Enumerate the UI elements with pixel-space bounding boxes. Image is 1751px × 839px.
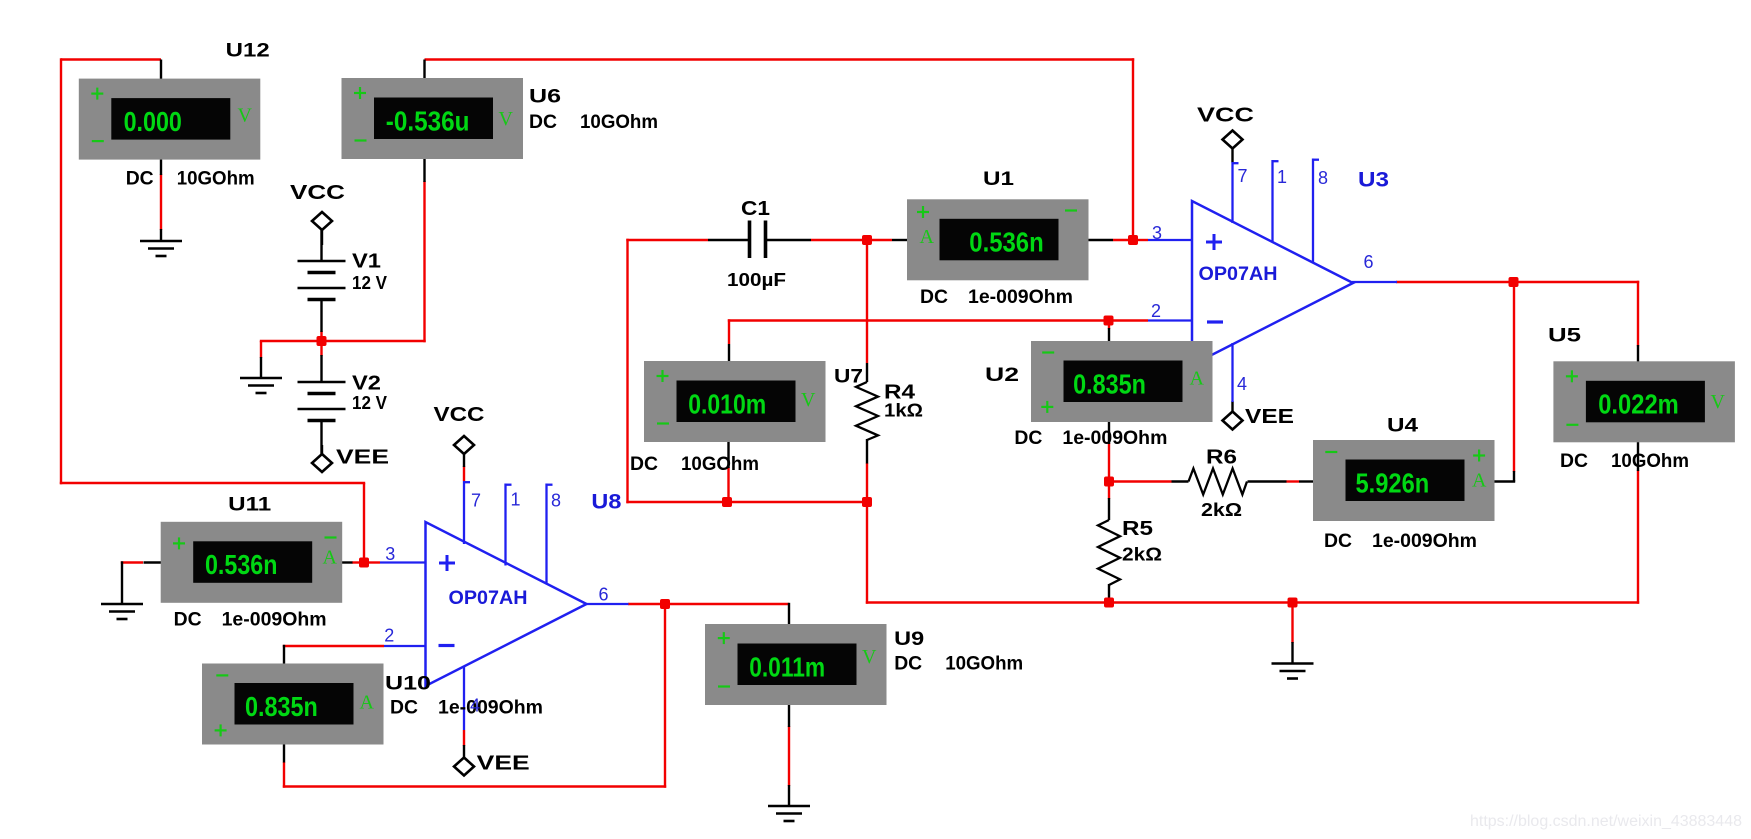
svg-text:8: 8 xyxy=(1318,168,1328,188)
op-amp U8 OP07AH xyxy=(426,522,587,686)
wire VCC diamond stub U3 xyxy=(1231,148,1233,163)
power symbol VEE U3 xyxy=(1223,412,1243,430)
wire battery junction to ground xyxy=(260,341,262,358)
svg-text:10GOhm: 10GOhm xyxy=(580,111,658,133)
wire pin 8 blue U3 xyxy=(1313,159,1319,263)
wire pin 1 blue U8 xyxy=(506,484,512,566)
wire VEE stub red lower opamp xyxy=(463,730,465,746)
svg-text:DC: DC xyxy=(920,286,948,308)
wire pin 6 blue U3 xyxy=(1352,281,1397,283)
wire R6 right lead xyxy=(1248,480,1287,482)
svg-text:-0.536u: -0.536u xyxy=(386,105,470,136)
label U7 DC rating xyxy=(630,453,759,475)
svg-text:VCC: VCC xyxy=(290,182,345,204)
svg-text:10GOhm: 10GOhm xyxy=(1611,450,1689,472)
svg-text:7: 7 xyxy=(471,491,481,511)
svg-text:DC: DC xyxy=(1324,530,1352,552)
svg-text:1e-009Ohm: 1e-009Ohm xyxy=(222,608,327,630)
svg-text:1e-009Ohm: 1e-009Ohm xyxy=(1062,427,1167,449)
wire pin 4 blue U3 xyxy=(1231,343,1233,402)
wire U12 bottom to ground xyxy=(160,174,162,230)
wire U11 left lead black xyxy=(144,561,162,563)
svg-text:0.022m: 0.022m xyxy=(1598,389,1679,420)
wire pin 2 blue U3 xyxy=(1148,319,1193,321)
wire VEE diamond stub U3 xyxy=(1231,401,1233,413)
svg-text:VCC: VCC xyxy=(1197,105,1254,127)
junction battery mid node xyxy=(317,336,327,346)
junction U11 pin3 node xyxy=(359,558,369,568)
multimeter U5 xyxy=(1553,361,1735,442)
svg-text:U12: U12 xyxy=(226,41,270,62)
capacitor C1 100uF xyxy=(750,221,766,259)
wire R4 bottom stub xyxy=(866,439,868,464)
multimeter U12 xyxy=(79,79,260,160)
wire R5 bottom stub xyxy=(1108,584,1110,603)
wire U6 top long wire xyxy=(425,58,1135,241)
svg-text:0.835n: 0.835n xyxy=(1073,368,1146,399)
wire pin6 junction down to U4 right xyxy=(1513,282,1515,472)
label U2 DC rating xyxy=(1014,427,1167,449)
svg-text:OP07AH: OP07AH xyxy=(1199,264,1278,285)
svg-text:OP07AH: OP07AH xyxy=(449,588,528,609)
svg-text:2kΩ: 2kΩ xyxy=(1122,544,1162,565)
svg-text:V: V xyxy=(1711,391,1726,413)
label U12 DC rating xyxy=(126,167,255,189)
wire U9 top stub xyxy=(788,603,790,625)
svg-text:U9: U9 xyxy=(894,629,924,650)
wire U5 top stub xyxy=(1637,345,1639,362)
wire ground rail bottom xyxy=(866,601,1639,603)
svg-text:10GOhm: 10GOhm xyxy=(177,167,255,189)
wire R6 right red xyxy=(1287,480,1300,482)
wire VEE diamond stub battery xyxy=(321,445,323,455)
junction U2-R5-R6 node xyxy=(1104,477,1114,487)
wire pin 1 blue U3 xyxy=(1273,160,1279,242)
wire C1 left wire down to ground rail xyxy=(626,239,867,503)
junction pin6 U8 node xyxy=(660,599,670,609)
svg-text:V: V xyxy=(238,105,253,127)
multimeter U4 xyxy=(1313,440,1495,521)
svg-text:VEE: VEE xyxy=(336,447,389,469)
svg-text:0.536n: 0.536n xyxy=(969,227,1043,258)
svg-text:5.926n: 5.926n xyxy=(1356,467,1430,498)
multimeter U6 xyxy=(342,78,524,159)
label U5 DC rating xyxy=(1560,450,1689,472)
multimeter U10 xyxy=(202,664,384,745)
wire pin 2 wire of U3 xyxy=(728,319,1148,344)
svg-text:A: A xyxy=(1472,470,1487,492)
svg-text:https://blog.csdn.net/weixin_4: https://blog.csdn.net/weixin_43883448 xyxy=(1470,813,1742,830)
label U6 DC rating xyxy=(529,111,658,133)
wire U12 top stub xyxy=(160,60,162,80)
wire VCC stub red lower opamp xyxy=(463,466,465,481)
svg-text:R5: R5 xyxy=(1122,518,1153,540)
label U10 DC rating xyxy=(390,696,543,718)
wire junction to pin 3 of U3 xyxy=(1133,239,1148,241)
ground battery xyxy=(240,378,282,393)
wire battery ground stub xyxy=(260,357,262,378)
wire U10 top stub xyxy=(283,645,285,665)
svg-text:0.010m: 0.010m xyxy=(688,388,766,419)
ground below U9 xyxy=(768,806,810,821)
svg-text:0.835n: 0.835n xyxy=(245,691,318,722)
svg-text:DC: DC xyxy=(529,111,557,133)
wire pin 2 blue U8 xyxy=(384,645,427,647)
label U4 DC rating xyxy=(1324,530,1477,552)
svg-text:V1: V1 xyxy=(352,251,381,273)
wire V1 to V2 junction stub xyxy=(320,331,322,356)
svg-text:1: 1 xyxy=(1277,167,1287,187)
junction C1-U1-R4 node xyxy=(862,235,872,245)
wire U9 ground stub xyxy=(788,785,790,806)
wire pin 7 blue U8 xyxy=(464,481,470,544)
svg-text:V: V xyxy=(801,389,816,411)
wire U11 right lead black xyxy=(341,561,353,563)
wire pin 2 wire of U8 xyxy=(283,645,384,647)
svg-text:1: 1 xyxy=(511,490,521,510)
svg-text:DC: DC xyxy=(894,653,922,675)
wire pin 6 red of U8 xyxy=(628,603,665,605)
wire U5 bottom stub xyxy=(1637,442,1639,471)
label U1 DC rating xyxy=(920,286,1073,308)
svg-text:DC: DC xyxy=(174,608,202,630)
wire pin 6 wire of U3 to U5 xyxy=(1396,281,1639,346)
svg-text:VEE: VEE xyxy=(477,753,530,775)
svg-text:A: A xyxy=(360,692,375,714)
wire right ground stub xyxy=(1291,642,1293,664)
svg-text:1e-009Ohm: 1e-009Ohm xyxy=(968,286,1073,308)
junction pin2 U3 - U2 node xyxy=(1104,316,1114,326)
svg-text:DC: DC xyxy=(630,453,658,475)
wire U4 right lead xyxy=(1492,471,1515,482)
svg-text:U11: U11 xyxy=(228,495,272,516)
wire U11 left corner down xyxy=(121,561,123,604)
svg-text:U5: U5 xyxy=(1548,326,1582,347)
svg-text:1kΩ: 1kΩ xyxy=(884,400,923,421)
svg-text:10GOhm: 10GOhm xyxy=(681,453,759,475)
wire U4 left lead xyxy=(1299,480,1314,482)
multimeter U9 xyxy=(705,624,887,705)
svg-text:10GOhm: 10GOhm xyxy=(945,653,1023,675)
svg-text:1e-009Ohm: 1e-009Ohm xyxy=(438,696,543,718)
battery V1 12V xyxy=(298,261,346,300)
svg-text:0.536n: 0.536n xyxy=(205,549,277,580)
svg-text:DC: DC xyxy=(126,167,154,189)
wire VEE diamond stub lower opamp xyxy=(463,745,465,758)
op-amp U3 OP07AH xyxy=(1192,201,1353,365)
junction R5 rail node xyxy=(1104,598,1114,608)
wire U12 ground stub xyxy=(160,229,162,241)
resistor R6 2k xyxy=(1189,469,1248,495)
junction R4 rail node xyxy=(862,497,872,507)
ground right rail xyxy=(1272,664,1314,679)
wire U2 top stub xyxy=(1108,328,1110,342)
svg-text:3: 3 xyxy=(1152,223,1162,243)
battery V2 12V xyxy=(298,382,346,421)
multimeter U1 xyxy=(907,199,1089,280)
wire U7 bottom stub xyxy=(727,442,729,469)
wire rail down segment xyxy=(866,502,868,604)
wire U2 bottom to R5 R6 junction xyxy=(1108,443,1110,499)
label U11 DC rating xyxy=(174,608,327,630)
wire U2 top red stub xyxy=(1108,321,1110,330)
wire U6 top stub xyxy=(423,60,425,80)
junction pin3 U3 node xyxy=(1128,235,1138,245)
wire junction to R6 left xyxy=(1109,480,1172,482)
power symbol VCC battery xyxy=(312,212,332,230)
wire V1 bottom lead xyxy=(320,300,322,333)
ground below U12 xyxy=(140,241,182,256)
svg-text:C1: C1 xyxy=(741,198,770,220)
wire C1 right to U1 left xyxy=(811,239,892,241)
svg-text:VEE: VEE xyxy=(1245,406,1294,428)
svg-text:7: 7 xyxy=(1238,166,1248,186)
svg-text:12 V: 12 V xyxy=(352,393,387,413)
wire U1 right lead red xyxy=(1113,239,1133,241)
wire output junction to U9 xyxy=(665,603,789,605)
multimeter U7 xyxy=(644,361,826,442)
svg-text:U10: U10 xyxy=(385,674,431,695)
wire U6 bottom stub xyxy=(423,158,425,182)
wire pin 7 blue U3 xyxy=(1233,162,1239,223)
svg-text:VCC: VCC xyxy=(434,404,485,426)
junction pin6 U3 node xyxy=(1509,277,1519,287)
wire VCC diamond stub battery xyxy=(321,229,323,245)
svg-text:U1: U1 xyxy=(983,169,1015,190)
wire C1 left lead xyxy=(708,239,748,241)
svg-text:V2: V2 xyxy=(352,373,381,395)
power symbol VEE battery xyxy=(312,454,332,472)
resistor R4 1k xyxy=(856,382,878,440)
svg-text:A: A xyxy=(1190,368,1205,390)
svg-text:4: 4 xyxy=(470,696,480,716)
resistor R5 2k xyxy=(1098,520,1120,585)
wire U7 top stub xyxy=(728,344,730,362)
wire U11 right to junction xyxy=(352,561,364,563)
label U9 DC rating xyxy=(894,653,1023,675)
svg-text:A: A xyxy=(920,226,935,248)
svg-text:DC: DC xyxy=(1560,450,1588,472)
wire rail to right ground xyxy=(1291,603,1293,644)
svg-text:R6: R6 xyxy=(1206,447,1237,469)
multimeter U11 xyxy=(161,522,343,603)
svg-text:2kΩ: 2kΩ xyxy=(1201,499,1242,520)
wire pin 3 blue U8 xyxy=(380,561,427,563)
svg-text:U4: U4 xyxy=(1387,416,1419,437)
wire U10 bottom stub xyxy=(283,742,285,763)
svg-text:V: V xyxy=(499,108,514,130)
wire pin 8 blue U8 xyxy=(547,484,553,585)
svg-text:12 V: 12 V xyxy=(352,273,387,293)
wire VCC diamond stub lower opamp xyxy=(463,454,465,468)
svg-text:6: 6 xyxy=(1364,252,1374,272)
wire R4 top stub xyxy=(866,363,868,382)
wire pin 6 blue U8 xyxy=(584,603,629,605)
wire U12 bottom stub xyxy=(160,159,162,175)
wire V1 top lead xyxy=(320,230,322,261)
wire R4 bottom to rail xyxy=(866,463,868,502)
wire U9 bottom red xyxy=(788,726,790,786)
svg-text:U2: U2 xyxy=(985,365,1019,386)
svg-text:U3: U3 xyxy=(1358,169,1389,192)
wire U1 right lead xyxy=(1088,239,1114,241)
power symbol VCC lower op-amp xyxy=(454,436,474,454)
svg-text:U8: U8 xyxy=(591,491,621,514)
wire U2 bottom stub xyxy=(1108,420,1110,444)
wire feedback loop down and left xyxy=(283,604,666,788)
wire pin 4 blue U8 xyxy=(463,667,465,731)
wire C1 junction down to R4 xyxy=(866,240,868,363)
svg-text:0.000: 0.000 xyxy=(124,106,182,137)
wire U1 left lead xyxy=(892,239,908,241)
svg-text:0.011m: 0.011m xyxy=(749,651,825,682)
wire C1 right lead xyxy=(767,239,811,241)
wire V2 top lead xyxy=(320,355,322,382)
wire U11 left lead red xyxy=(121,561,143,563)
wire U7 bottom red xyxy=(727,467,729,502)
svg-text:8: 8 xyxy=(551,491,561,511)
wire junction to pin 3 of U8 xyxy=(364,561,380,563)
svg-text:U6: U6 xyxy=(529,87,561,108)
svg-text:A: A xyxy=(323,547,338,569)
svg-text:DC: DC xyxy=(1014,427,1042,449)
wire R5 top stub xyxy=(1108,498,1110,520)
ground U11 input xyxy=(101,604,143,619)
wire V2 bottom lead xyxy=(320,421,322,455)
svg-text:2: 2 xyxy=(1151,301,1161,321)
wire U12 top to left column xyxy=(60,58,365,562)
svg-text:6: 6 xyxy=(599,585,609,605)
svg-text:V: V xyxy=(862,646,877,668)
svg-text:2: 2 xyxy=(384,626,394,646)
multimeter U2 xyxy=(1031,341,1213,422)
wire U5 bottom to ground rail xyxy=(1637,470,1639,604)
svg-text:DC: DC xyxy=(390,696,418,718)
wire R6 left lead xyxy=(1172,480,1189,482)
svg-text:4: 4 xyxy=(1237,374,1247,394)
wire pin 3 blue U3 xyxy=(1148,239,1193,241)
svg-text:3: 3 xyxy=(385,544,395,564)
junction U7 rail node xyxy=(722,497,732,507)
junction ground rail node xyxy=(1288,598,1298,608)
power symbol VCC U3 xyxy=(1223,131,1243,149)
svg-text:100µF: 100µF xyxy=(727,269,786,290)
svg-text:U7: U7 xyxy=(834,367,863,388)
wire U6 bottom to battery junction xyxy=(260,181,426,342)
wire U9 bottom stub xyxy=(788,704,790,727)
power symbol VEE lower op-amp xyxy=(454,758,474,776)
svg-text:1e-009Ohm: 1e-009Ohm xyxy=(1372,530,1477,552)
